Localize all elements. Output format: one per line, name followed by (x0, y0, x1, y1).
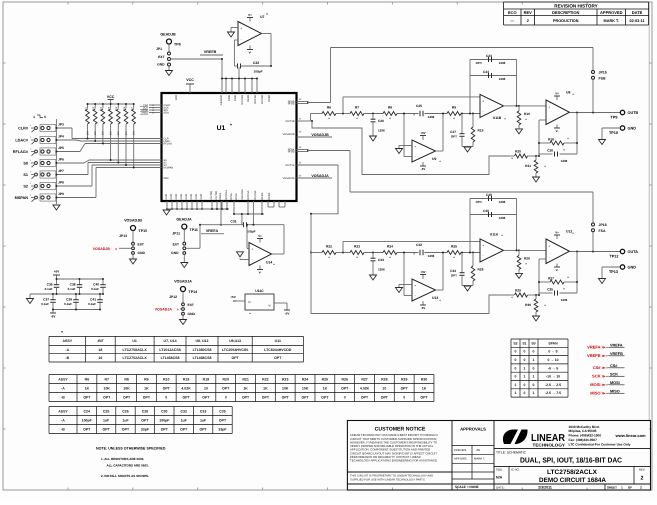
svg-text:EXT: EXT (188, 303, 194, 307)
svg-text:10K: 10K (86, 130, 89, 135)
svg-text:SUPPLIED FOR USE WITH LINEAR T: SUPPLIED FOR USE WITH LINEAR TECHNOLOGY … (350, 479, 426, 482)
svg-text:RFBB: RFBB (268, 95, 271, 102)
svg-text:0: 0 (225, 395, 227, 399)
svg-text:LT1468CS8: LT1468CS8 (161, 356, 180, 360)
svg-text:VREFB: VREFB (204, 50, 217, 54)
svg-text:R13: R13 (100, 106, 103, 111)
svg-text:TP8: TP8 (174, 43, 181, 47)
svg-text:R10: R10 (524, 112, 530, 116)
svg-text:10K: 10K (94, 130, 97, 135)
svg-text:VDD: VDD (175, 95, 178, 101)
svg-text:OF: OF (628, 485, 632, 489)
svg-text:1: 1 (524, 375, 526, 379)
svg-text:RINA: RINA (235, 193, 238, 199)
svg-text:10K: 10K (302, 386, 309, 390)
svg-text:C29: C29 (486, 193, 492, 197)
svg-text:OPT: OPT (222, 386, 230, 390)
svg-text:1uF: 1uF (200, 418, 207, 422)
svg-text:GND: GND (188, 312, 196, 316)
svg-text:1206: 1206 (499, 216, 506, 220)
svg-text:R21: R21 (525, 164, 531, 168)
svg-text:ROFSB: ROFSB (254, 95, 257, 104)
svg-text:R23: R23 (354, 245, 360, 249)
svg-text:0: 0 (533, 383, 535, 387)
svg-text:CUSTOMER NOTICE: CUSTOMER NOTICE (375, 427, 426, 433)
svg-text:MOSI: MOSI (610, 381, 620, 385)
svg-text:OUT2B: OUT2B (215, 191, 218, 200)
svg-text:OPT.: OPT. (476, 200, 483, 204)
svg-text:VOSADJB: VOSADJB (124, 219, 142, 223)
svg-text:R26: R26 (341, 377, 347, 381)
svg-text:IOUT1B: IOUT1B (285, 120, 295, 123)
svg-text:18: 18 (98, 348, 102, 352)
svg-text:OPT: OPT (282, 395, 290, 399)
svg-text:R9: R9 (452, 106, 456, 110)
svg-text:DESCRIPTION: DESCRIPTION (552, 10, 579, 15)
svg-text:VOSADJA: VOSADJA (311, 174, 329, 178)
svg-text:1206: 1206 (499, 77, 506, 81)
svg-text:0 → 5: 0 → 5 (548, 350, 557, 354)
svg-text:C35: C35 (547, 288, 553, 292)
svg-text:C33: C33 (378, 258, 384, 262)
svg-text:U9: U9 (432, 157, 436, 161)
svg-text:VREFA: VREFA (587, 345, 600, 350)
svg-text:R30: R30 (421, 377, 427, 381)
svg-text:C25: C25 (103, 409, 109, 413)
svg-text:R24: R24 (302, 377, 308, 381)
svg-text:LDAC#: LDAC# (15, 138, 29, 142)
svg-text:GND: GND (175, 194, 178, 200)
svg-text:JP7: JP7 (58, 169, 64, 173)
svg-text:OPT: OPT (242, 395, 250, 399)
svg-text:FSB: FSB (599, 76, 606, 80)
svg-text:≫: ≫ (602, 383, 606, 387)
svg-text:EXT: EXT (138, 242, 144, 246)
svg-text:OPT: OPT (341, 386, 349, 390)
svg-text:C22: C22 (253, 61, 259, 65)
svg-text:OPT: OPT (143, 395, 151, 399)
svg-text:GND: GND (185, 194, 188, 200)
svg-text:OPT: OPT (381, 395, 389, 399)
svg-text:RFBS: RFBS (288, 103, 295, 106)
svg-text:1206: 1206 (378, 129, 385, 133)
svg-text:OPT: OPT (83, 395, 91, 399)
svg-text:OPT: OPT (123, 395, 131, 399)
svg-text:SCK: SCK (610, 372, 618, 376)
svg-text:U8, U12: U8, U12 (195, 339, 208, 343)
svg-text:100pF: 100pF (82, 418, 93, 422)
svg-text:OPT: OPT (451, 274, 457, 278)
svg-text:MARK T.: MARK T. (604, 19, 619, 23)
svg-text:OPT: OPT (122, 427, 130, 431)
svg-text:GND: GND (200, 194, 203, 200)
svg-text:-A: -A (61, 418, 65, 422)
svg-text:ASSY: ASSY (62, 339, 72, 343)
svg-text:1: 1 (515, 391, 517, 395)
svg-text:C37: C37 (43, 297, 49, 301)
svg-text:-B: -B (61, 427, 65, 431)
svg-text:R30: R30 (525, 303, 531, 307)
svg-text:U11: U11 (275, 339, 281, 343)
svg-text:1206: 1206 (499, 61, 506, 65)
svg-text:APPROVED: APPROVED (600, 10, 623, 15)
svg-text:C38: C38 (70, 282, 76, 286)
svg-text:CS#: CS# (610, 364, 618, 368)
svg-text:R26: R26 (524, 256, 530, 260)
svg-text:R20: R20 (223, 377, 229, 381)
svg-text:OPT: OPT (180, 427, 188, 431)
svg-text:R25: R25 (322, 377, 328, 381)
svg-text:-5V: -5V (421, 306, 426, 310)
svg-text:REFB: REFB (247, 95, 250, 102)
svg-text:≫: ≫ (602, 375, 606, 379)
svg-text:0.1uF: 0.1uF (68, 287, 76, 291)
svg-text:OUTB: OUTB (628, 111, 639, 115)
svg-text:1: 1 (33, 115, 35, 119)
svg-text:RINA: RINA (230, 193, 233, 199)
svg-text:R28: R28 (478, 268, 484, 272)
svg-text:LTC2758/2ACLX: LTC2758/2ACLX (547, 469, 598, 476)
svg-text:0: 0 (344, 395, 346, 399)
svg-text:V-: V- (268, 304, 271, 308)
svg-text:RFLAG#: RFLAG# (13, 150, 29, 154)
svg-text:SHEET: SHEET (607, 485, 617, 489)
svg-text:R12: R12 (92, 106, 95, 111)
svg-text:MISO: MISO (610, 389, 620, 393)
svg-text:-B: -B (61, 395, 65, 399)
svg-text:0.1uF: 0.1uF (91, 287, 99, 291)
svg-text:RINB: RINB (228, 95, 231, 101)
svg-text:0.1uF: 0.1uF (88, 302, 96, 306)
svg-text:C24: C24 (83, 409, 89, 413)
svg-text:GND: GND (138, 251, 146, 255)
svg-text:MISO: MISO (590, 391, 600, 396)
svg-text:JP13: JP13 (119, 234, 127, 238)
svg-text:C32: C32 (416, 243, 422, 247)
svg-text:MARK T.: MARK T. (474, 457, 485, 461)
svg-text:0: 0 (403, 395, 405, 399)
svg-text:100pF: 100pF (254, 70, 263, 74)
svg-text:10K: 10K (109, 130, 112, 135)
svg-text:TP10: TP10 (609, 131, 618, 135)
svg-text:C35: C35 (219, 409, 225, 413)
svg-text:0: 0 (165, 395, 167, 399)
svg-text:IC NO.: IC NO. (511, 468, 520, 472)
svg-text:0.1uF: 0.1uF (64, 302, 72, 306)
svg-text:R18: R18 (183, 377, 189, 381)
svg-text:C32: C32 (180, 409, 186, 413)
svg-text:VOSADJA: VOSADJA (155, 308, 173, 312)
svg-text:VOSADJB: VOSADJB (311, 133, 329, 137)
svg-text:-: - (241, 37, 242, 41)
svg-text:V-: V- (259, 270, 262, 274)
svg-text:LT1360CS8: LT1360CS8 (193, 348, 212, 352)
svg-text:R15: R15 (115, 106, 118, 111)
svg-text:-2.5 → 2.5: -2.5 → 2.5 (545, 383, 561, 387)
svg-text:-B: -B (65, 356, 69, 360)
svg-text:PCB DES.: PCB DES. (454, 448, 467, 452)
svg-text:V-: V- (556, 268, 559, 272)
svg-text:OPT: OPT (361, 395, 369, 399)
svg-text:GEADJA: GEADJA (241, 189, 244, 199)
svg-text:U1: U1 (132, 339, 137, 343)
svg-text:R19: R19 (203, 377, 209, 381)
svg-text:TP13: TP13 (609, 270, 618, 274)
svg-text:SDO: SDO (164, 112, 170, 115)
svg-text:REV.: REV. (639, 468, 645, 472)
svg-text:10K: 10K (117, 130, 120, 135)
svg-text:1uF: 1uF (122, 418, 129, 422)
svg-text:R27: R27 (361, 377, 367, 381)
svg-text:DUAL, SPI, IOUT, 18/16-BIT DAC: DUAL, SPI, IOUT, 18/16-BIT DAC (520, 456, 622, 465)
svg-text:V+: V+ (258, 234, 262, 238)
svg-text:R24: R24 (387, 245, 393, 249)
svg-text:R21: R21 (242, 377, 248, 381)
svg-text:M-SPAN: M-SPAN (164, 167, 174, 170)
svg-text:GND: GND (195, 194, 198, 200)
svg-text:U8: U8 (566, 91, 570, 95)
svg-text:Fax: (408)434-0507: Fax: (408)434-0507 (569, 438, 598, 442)
svg-text:V+: V+ (555, 231, 559, 235)
svg-text:1206: 1206 (561, 298, 568, 302)
svg-text:2: 2 (641, 476, 644, 482)
svg-text:C41: C41 (90, 297, 96, 301)
svg-text:-5V: -5V (285, 311, 290, 315)
svg-text:U9,U13: U9,U13 (229, 339, 241, 343)
svg-text:C27: C27 (450, 130, 456, 134)
svg-text:C26: C26 (122, 409, 128, 413)
svg-text:10: 10 (382, 386, 386, 390)
svg-text:S2: S2 (513, 341, 517, 345)
svg-text:REV: REV (524, 10, 533, 15)
svg-text:-5V: -5V (421, 167, 426, 171)
svg-text:-: - (252, 257, 253, 261)
svg-text:LTC2752ACLX: LTC2752ACLX (123, 356, 148, 360)
svg-text:Milpitas, CA 95035: Milpitas, CA 95035 (569, 429, 597, 433)
svg-text:R19: R19 (478, 129, 484, 133)
svg-text:RFBA: RFBA (261, 192, 264, 199)
svg-text:VREFB: VREFB (587, 353, 601, 358)
svg-text:U14: U14 (266, 261, 272, 265)
svg-text:VREFB: VREFB (610, 352, 623, 356)
svg-text:V+: V+ (248, 300, 252, 304)
svg-text:1206: 1206 (428, 254, 435, 258)
svg-text:R29: R29 (515, 289, 521, 293)
svg-text:0: 0 (524, 391, 526, 395)
svg-text:-A: -A (65, 348, 69, 352)
svg-text:OPT: OPT (182, 395, 190, 399)
svg-text:1206: 1206 (561, 159, 568, 163)
svg-text:R8: R8 (124, 377, 129, 381)
svg-text:TP14: TP14 (189, 290, 198, 294)
svg-text:C23: C23 (486, 54, 492, 58)
svg-text:-: - (483, 109, 484, 113)
svg-text:+5V: +5V (54, 270, 61, 274)
svg-text:CS#: CS# (593, 365, 602, 370)
svg-text:PRODUCTION: PRODUCTION (553, 19, 579, 23)
svg-text:OPT: OPT (161, 427, 169, 431)
svg-text:+5V: +5V (420, 131, 425, 135)
svg-text:S2: S2 (23, 184, 28, 188)
svg-text:0: 0 (524, 350, 526, 354)
svg-text:MSPAN: MSPAN (15, 196, 29, 200)
svg-text:S1: S1 (23, 173, 28, 177)
svg-text:R17: R17 (131, 106, 134, 111)
svg-text:C34: C34 (450, 269, 456, 273)
svg-text:+5V: +5V (230, 295, 235, 299)
svg-text:OPT: OPT (231, 356, 239, 360)
svg-text:-10 → 10: -10 → 10 (546, 375, 560, 379)
svg-text:U7, U14: U7, U14 (164, 339, 177, 343)
svg-text:GND: GND (157, 63, 165, 67)
svg-text:VCC: VCC (107, 95, 115, 99)
svg-text:DEMO CIRCUIT 1684A: DEMO CIRCUIT 1684A (539, 477, 606, 484)
svg-text:R6: R6 (85, 377, 90, 381)
svg-text:-: - (483, 254, 484, 258)
svg-text:DNC: DNC (164, 177, 170, 180)
svg-text:VREFA: VREFA (610, 343, 623, 347)
svg-text:2: 2 (527, 19, 529, 23)
svg-text:N/A: N/A (496, 476, 503, 480)
svg-text:2. INSTALL SHUNTS AS SHOWN.: 2. INSTALL SHUNTS AS SHOWN. (101, 474, 149, 478)
svg-text:RINB: RINB (234, 95, 237, 101)
svg-text:1: 1 (533, 391, 535, 395)
svg-text:10K: 10K (102, 130, 105, 135)
svg-text:R16: R16 (123, 106, 126, 111)
svg-text:TECHNOLOGY APPLICATIONS ENGINE: TECHNOLOGY APPLICATIONS ENGINEERING FOR … (350, 459, 438, 463)
svg-text:OPT: OPT (141, 418, 149, 422)
svg-text:C39: C39 (66, 297, 72, 301)
svg-text:R23: R23 (282, 377, 288, 381)
svg-text:0: 0 (515, 358, 517, 362)
svg-text:RCOMB: RCOMB (241, 95, 244, 105)
svg-text:-5 → 5: -5 → 5 (548, 366, 558, 370)
svg-text:≫: ≫ (602, 346, 606, 350)
svg-text:-BIT: -BIT (97, 339, 105, 343)
svg-text:TP11: TP11 (190, 228, 198, 232)
svg-text:THIS CIRCUIT IS PROPRIETARY TO: THIS CIRCUIT IS PROPRIETARY TO LINEAR TE… (350, 475, 433, 478)
svg-text:GEADJA: GEADJA (176, 218, 192, 222)
svg-text:DATE:: DATE: (496, 485, 505, 489)
svg-text:1: 1 (515, 383, 517, 387)
svg-text:100pF: 100pF (159, 418, 170, 422)
svg-text:SPAN: SPAN (548, 341, 558, 345)
svg-text:0: 0 (533, 366, 535, 370)
svg-text:≫: ≫ (602, 366, 606, 370)
svg-text:1uF: 1uF (103, 418, 110, 422)
svg-text:100pF: 100pF (247, 230, 256, 234)
svg-text:*: * (230, 123, 232, 129)
svg-text:www.linear.com: www.linear.com (615, 433, 647, 438)
svg-text:C28: C28 (142, 409, 148, 413)
svg-text:ALL CAPACITORS ARE 0603.: ALL CAPACITORS ARE 0603. (107, 464, 149, 468)
svg-text:EXT: EXT (173, 242, 179, 246)
svg-text:OPT: OPT (202, 395, 210, 399)
svg-text:C36: C36 (47, 282, 53, 286)
svg-text:*: * (61, 330, 63, 335)
svg-text:0: 0 (524, 383, 526, 387)
svg-text:R8: R8 (388, 106, 392, 110)
svg-text:JP4: JP4 (58, 135, 64, 139)
svg-text:LT1012ACS8: LT1012ACS8 (159, 348, 180, 352)
svg-text:1K: 1K (323, 386, 328, 390)
svg-text:10K: 10K (104, 386, 111, 390)
svg-text:OPT.: OPT. (476, 61, 483, 65)
svg-text:4.02K: 4.02K (360, 386, 370, 390)
svg-text:JW: JW (476, 448, 480, 452)
svg-text:REFA: REFA (219, 193, 222, 200)
svg-text:CLR#: CLR# (18, 126, 29, 130)
svg-text:R10: R10 (163, 377, 169, 381)
svg-text:TECHNOLOGY: TECHNOLOGY (533, 443, 566, 448)
svg-text:Phone: (408)432-1900: Phone: (408)432-1900 (569, 434, 602, 438)
svg-text:S1: S1 (522, 341, 526, 345)
svg-text:VOSADJB: VOSADJB (93, 247, 111, 251)
svg-text:1630 McCarthy Blvd.: 1630 McCarthy Blvd. (569, 425, 600, 429)
svg-text:C30: C30 (483, 209, 489, 213)
svg-text:GEADJB: GEADJB (160, 33, 176, 37)
svg-text:-: - (549, 255, 550, 259)
svg-text:-A: -A (61, 386, 65, 390)
svg-text:0: 0 (524, 358, 526, 362)
svg-text:1206: 1206 (378, 268, 385, 272)
svg-text:-: - (549, 116, 550, 120)
svg-text:1: 1 (533, 375, 535, 379)
svg-text:C26: C26 (378, 119, 384, 123)
svg-text:R29: R29 (401, 377, 407, 381)
svg-text:OPT: OPT (262, 395, 270, 399)
svg-text:0: 0 (533, 350, 535, 354)
svg-text:JP12: JP12 (169, 295, 177, 299)
svg-text:0: 0 (515, 375, 517, 379)
svg-text:REVISION HISTORY: REVISION HISTORY (554, 3, 597, 8)
svg-text:R11: R11 (84, 106, 87, 111)
svg-text:SCK: SCK (592, 374, 601, 379)
svg-text:GND: GND (165, 194, 168, 200)
svg-text:OPT: OPT (451, 135, 457, 139)
svg-text:S0: S0 (531, 341, 535, 345)
svg-text:R6: R6 (327, 106, 331, 110)
svg-text:VCC: VCC (186, 78, 194, 82)
svg-text:RVOSA: RVOSA (254, 190, 257, 199)
svg-text:-: - (415, 293, 416, 297)
svg-text:GND: GND (170, 194, 173, 200)
svg-text:0.1uF: 0.1uF (41, 302, 49, 306)
svg-text:JP5: JP5 (58, 146, 64, 150)
svg-text:OPT: OPT (219, 418, 227, 422)
svg-text:ASSY: ASSY (58, 377, 68, 381)
svg-text:JP8: JP8 (58, 181, 64, 185)
svg-text:U11A: U11A (490, 233, 499, 237)
svg-text:VOSADJB: VOSADJB (283, 133, 295, 136)
svg-text:GND: GND (628, 127, 637, 131)
svg-text:JP3: JP3 (58, 123, 64, 127)
svg-text:VREFA: VREFA (206, 229, 219, 233)
svg-text:33pF: 33pF (218, 427, 227, 431)
svg-text:OPT: OPT (321, 395, 329, 399)
svg-text:R7: R7 (105, 377, 110, 381)
svg-text:0.1uF: 0.1uF (45, 287, 53, 291)
svg-text:ROFSA: ROFSA (247, 190, 250, 199)
svg-text:LTC2054HVCS5: LTC2054HVCS5 (222, 348, 248, 352)
svg-text:C25: C25 (416, 104, 422, 108)
svg-text:02-03-11: 02-03-11 (630, 19, 645, 23)
svg-text:V-: V- (556, 129, 559, 133)
svg-text:V+: V+ (555, 92, 559, 96)
svg-text:»: » (176, 308, 178, 312)
svg-text:1: 1 (524, 366, 526, 370)
svg-text:U11C: U11C (255, 289, 264, 293)
